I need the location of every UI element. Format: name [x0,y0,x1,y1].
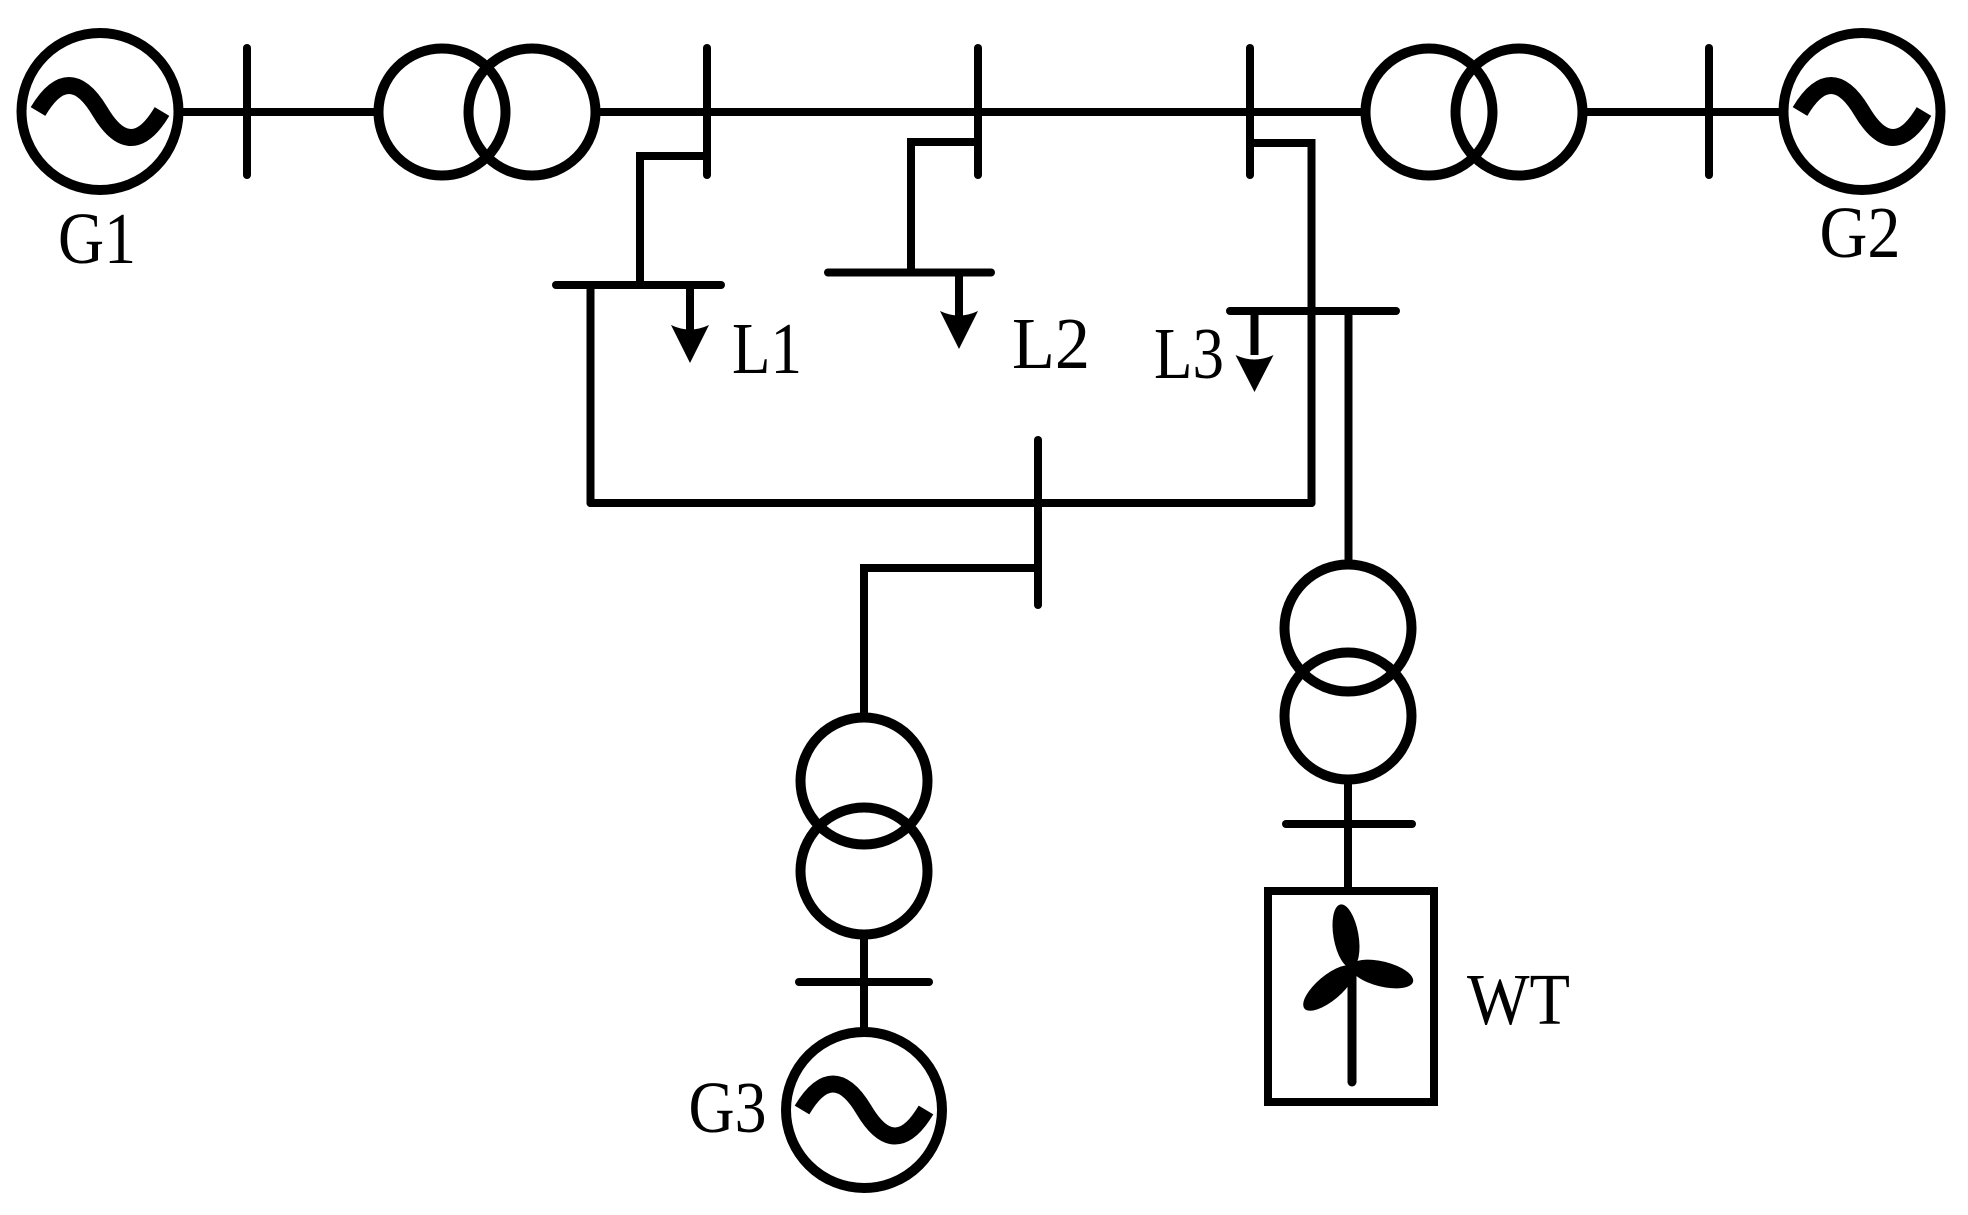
bus tick B5 [1705,48,1713,175]
wire L3 bus to transformer T4 [1345,311,1353,562]
load L1 arrow [671,285,709,363]
svg-text:G1: G1 [58,198,136,279]
bus tick B2 [703,48,711,175]
load bus L2 [828,269,991,277]
wire T2 to generator G2 [1583,108,1780,116]
load bus L1 [556,281,721,289]
bus tick B8 [1286,820,1412,828]
wire T1 to transformer T2 [599,108,1362,116]
wind turbine rotor symbol [1296,902,1416,1082]
bus tick B3 [974,48,982,175]
transformer T4 [1285,565,1412,780]
svg-text:WT: WT [1467,959,1570,1040]
svg-text:G2: G2 [1820,192,1901,273]
generator G1 [22,33,179,190]
ring wire bottom [591,499,1312,507]
svg-text:L1: L1 [732,308,802,389]
wind turbine WT box [1268,891,1434,1102]
transformer T3 [801,718,928,935]
generator G3 [786,1032,942,1188]
load L2 arrow [940,273,978,350]
bus tick B4 [1246,48,1254,175]
wire B4 down to ring line [1250,143,1312,503]
ring wire left vertical [587,285,595,503]
transformer T2 [1366,49,1583,176]
bus tick B6 on ring bottom [1034,440,1042,605]
svg-text:G3: G3 [689,1067,767,1148]
transformer T1 [379,49,596,176]
wire T3 to generator G3 [860,937,868,1033]
generator G2 [1784,33,1941,190]
wire B6 to transformer T3 [864,568,1038,715]
load L3 arrow [1236,311,1274,392]
bus tick B1 [243,48,251,175]
bus tick B7 [799,978,929,986]
load bus L3 [1230,307,1396,315]
wire T4 to WT box [1344,782,1352,891]
wire B2 to load L1 bus [640,156,707,281]
svg-text:L3: L3 [1154,313,1224,394]
wire G1 to transformer T1 [183,108,375,116]
svg-text:L2: L2 [1012,303,1090,384]
wire B3 to load L2 bus [911,142,978,269]
